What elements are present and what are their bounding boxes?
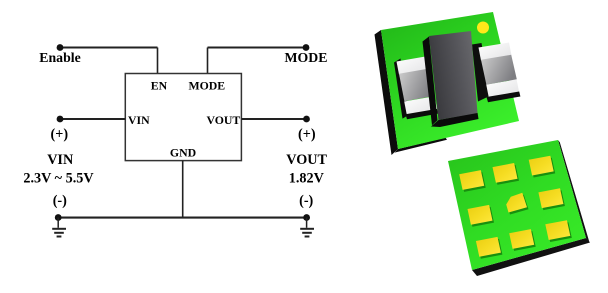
node VOUT dot — [303, 116, 310, 123]
ground symbol right — [300, 218, 314, 237]
package photo: right capacitor bottom terminal — [486, 80, 519, 98]
IC U1 body — [125, 74, 241, 161]
package photo: pad 5 pin1 marker pentagon shadow — [508, 195, 529, 215]
package photo: center IC body — [429, 31, 478, 120]
wire Enable horizontal — [60, 46, 158, 48]
package photo: right capacitor top terminal — [479, 43, 512, 61]
svg-text:GND: GND — [170, 145, 196, 159]
wire MODE horizontal — [208, 46, 307, 48]
svg-text:MODE: MODE — [188, 79, 225, 93]
package photo: pad 7 shadow — [477, 239, 502, 259]
package photo: right capacitor bottom shadow — [487, 92, 521, 103]
package photo: pad 7 — [476, 237, 501, 257]
node VIN dot — [57, 116, 64, 123]
package photo: DFN chip bottom-side thickness — [472, 238, 590, 276]
svg-text:2.3V ~ 5.5V: 2.3V ~ 5.5V — [23, 170, 94, 186]
package photo: left capacitor bottom shadow — [406, 109, 439, 119]
package photo: pad 2 shadow — [494, 165, 519, 185]
package photo: left capacitor shadow — [394, 59, 409, 119]
svg-text:VOUT: VOUT — [286, 152, 327, 168]
package photo: center IC shadow right — [472, 43, 491, 102]
ground symbol left — [52, 218, 66, 237]
package photo: DFN chip right-side thickness — [558, 140, 590, 243]
package photo: pad 3 — [529, 156, 554, 176]
package photo: left capacitor bottom terminal — [404, 96, 437, 115]
package photo: pad 8 — [509, 229, 534, 249]
package photo: right capacitor body — [481, 55, 517, 85]
svg-text:VIN: VIN — [47, 152, 74, 168]
package photo: left capacitor body — [399, 69, 435, 102]
package photo: pad 1 shadow — [461, 172, 486, 192]
svg-text:(-): (-) — [299, 193, 313, 209]
package photo: pad 3 shadow — [530, 158, 555, 178]
node ground right dot — [303, 214, 310, 221]
wire VIN input — [60, 118, 125, 120]
package photo: module board left-side thickness — [375, 30, 399, 155]
package photo: left capacitor top terminal — [397, 56, 430, 74]
package photo: pad 1 — [459, 170, 484, 190]
package photo: pad 2 — [493, 163, 518, 183]
package photo: center IC shadow left — [423, 37, 438, 126]
package photo: DFN chip green body — [448, 140, 586, 270]
wire EN vertical drop to pin EN — [157, 48, 159, 75]
package photo: pad 5 pin1 marker pentagon — [506, 193, 527, 213]
package photo: pad 9 — [545, 220, 570, 240]
node MODE dot — [303, 44, 310, 51]
package photo: pad 4 — [468, 205, 493, 225]
package photo: pad 8 shadow — [511, 231, 536, 251]
package photo: center IC shadow bottom — [431, 113, 479, 128]
wire ground bus bottom — [58, 217, 307, 219]
package photo: module green board top — [381, 12, 519, 149]
wire MODE vertical drop to pin MODE — [207, 48, 209, 75]
svg-text:VOUT: VOUT — [206, 113, 240, 127]
package photo: module board bottom-edge dark line — [395, 138, 448, 153]
package photo: pad 6 shadow — [540, 190, 565, 210]
wire GND vertical from U1 — [182, 161, 184, 218]
svg-text:(-): (-) — [53, 193, 67, 209]
package photo: pad 6 — [538, 188, 563, 208]
wire VOUT output — [241, 118, 306, 120]
svg-text:MODE: MODE — [285, 50, 328, 65]
node ground left dot — [55, 214, 62, 221]
package photo: pin-1 yellow dot — [477, 22, 489, 34]
svg-text:1.82V: 1.82V — [289, 170, 325, 186]
package photo: pad 4 shadow — [469, 207, 494, 227]
svg-text:(+): (+) — [51, 127, 69, 143]
svg-text:EN: EN — [151, 79, 168, 93]
package photo: pad 9 shadow — [547, 222, 572, 242]
node Enable dot — [57, 44, 64, 51]
svg-text:VIN: VIN — [128, 113, 150, 127]
svg-text:Enable: Enable — [39, 50, 80, 65]
svg-text:(+): (+) — [298, 127, 316, 143]
